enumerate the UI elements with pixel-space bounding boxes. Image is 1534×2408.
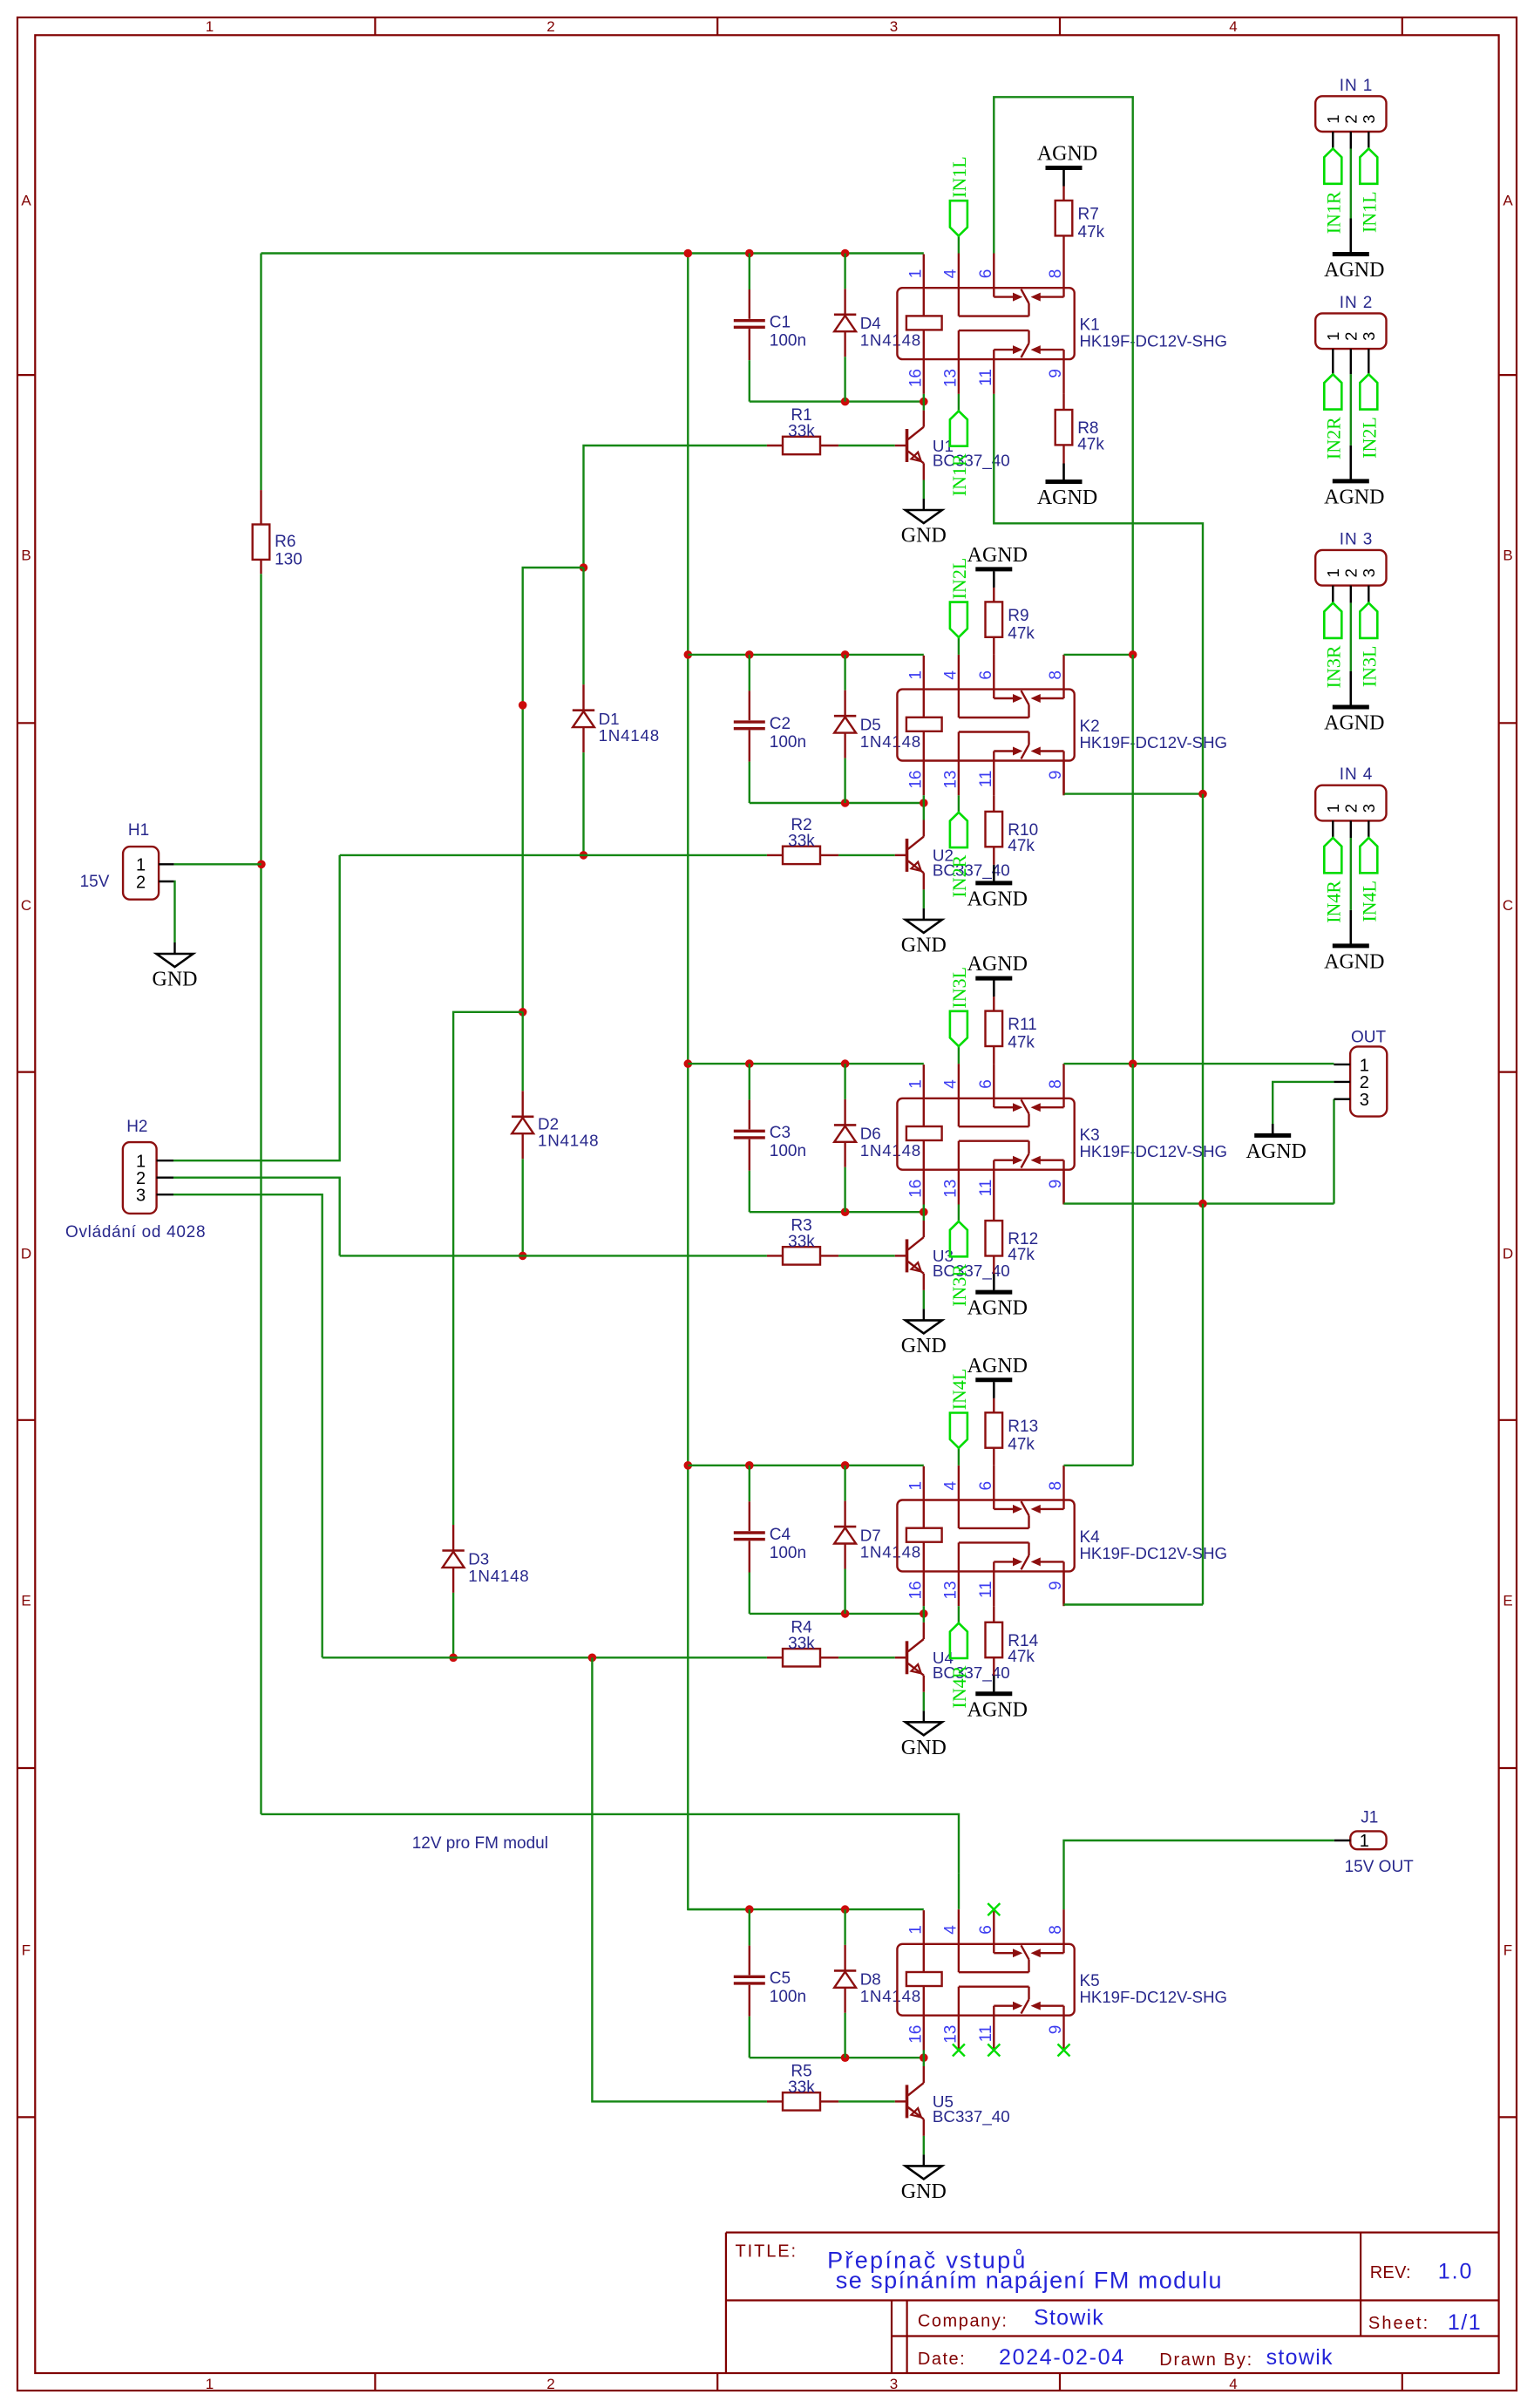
wire pin16 to rail K1: [923, 394, 925, 402]
svg-text:J1: J1: [1361, 1809, 1378, 1827]
svg-text:IN1L: IN1L: [1358, 191, 1380, 233]
wire K5 pin8 to J1: [1064, 1840, 1334, 1909]
AGND below R8: [1046, 480, 1083, 484]
svg-text:2: 2: [1342, 332, 1361, 341]
wire bus2 continues: [1202, 794, 1204, 1204]
junction K4 rail bus: [684, 1461, 693, 1470]
svg-text:2: 2: [136, 873, 146, 892]
svg-text:1N4148: 1N4148: [860, 1543, 921, 1561]
svg-text:47k: 47k: [1008, 624, 1035, 643]
svg-text:GND: GND: [901, 525, 947, 548]
border row ticks left: [17, 374, 35, 376]
svg-text:47k: 47k: [1008, 1435, 1035, 1453]
wire K1 base line left segment: [584, 446, 767, 568]
wire pin16 to rail K2: [923, 795, 925, 803]
wire R4 left lead red: [767, 1656, 783, 1658]
wire pin16 to rail K5: [923, 2051, 925, 2058]
wire pin16 to rail K3: [923, 1205, 925, 1213]
wire IN4 pin2 to AGND: [1350, 820, 1352, 838]
diode D2: [522, 1012, 524, 1092]
relay K3 switch 2: [958, 1141, 960, 1170]
svg-text:AGND: AGND: [1324, 950, 1384, 973]
svg-text:C3: C3: [770, 1124, 791, 1142]
svg-text:8: 8: [1047, 1925, 1065, 1935]
svg-text:H1: H1: [128, 821, 149, 840]
svg-text:IN3R: IN3R: [948, 1264, 970, 1307]
wire 15V line to K5 pin 4: [261, 1814, 960, 1874]
svg-text:1N4148: 1N4148: [538, 1132, 599, 1150]
svg-text:4: 4: [1229, 18, 1237, 35]
wire K4 base line: [322, 1656, 767, 1658]
svg-text:IN 1: IN 1: [1340, 77, 1373, 95]
svg-text:D4: D4: [860, 314, 881, 332]
transistor U5: [895, 2100, 907, 2102]
svg-text:8: 8: [1047, 1079, 1065, 1089]
svg-text:IN3L: IN3L: [1358, 646, 1380, 688]
svg-text:1: 1: [906, 1925, 925, 1935]
net label IN2R below K2 pin 13: [958, 795, 960, 813]
wire H2 pin3 to K4 base: [173, 1194, 322, 1657]
svg-text:D2: D2: [538, 1115, 559, 1133]
relay K5 coil pins 1/16: [923, 1910, 925, 1972]
net label IN3L above K3 pin 4: [958, 1046, 960, 1064]
wire pin16 to rail K4: [923, 1606, 925, 1614]
wire K5 pin4 from 15V line: [958, 1874, 960, 1909]
ground GND U1: [906, 510, 942, 523]
svg-text:9: 9: [1047, 771, 1065, 780]
junction C1 rail: [745, 249, 754, 258]
wire K2 pin8 to bus: [1064, 654, 1133, 656]
svg-text:3: 3: [1360, 1091, 1369, 1110]
wire collector to bottom rail K5: [923, 2058, 925, 2066]
svg-text:8: 8: [1047, 670, 1065, 680]
net label IN2L: [1360, 374, 1377, 409]
ground GND U3: [906, 1320, 942, 1333]
relay K1 body: [897, 288, 1074, 359]
svg-text:9: 9: [1047, 369, 1065, 378]
svg-text:IN 3: IN 3: [1340, 530, 1373, 548]
svg-text:3: 3: [1360, 568, 1378, 577]
relay K5 coil: [906, 1972, 942, 1986]
wire K2 pin9 to bus2: [1064, 792, 1204, 794]
wire branch to D3 column: [453, 1012, 523, 1355]
svg-text:33k: 33k: [788, 832, 815, 850]
svg-text:1: 1: [1324, 568, 1342, 577]
junction D1 top: [580, 563, 588, 572]
svg-text:D1: D1: [599, 710, 620, 728]
svg-text:4: 4: [941, 1079, 960, 1089]
svg-text:B: B: [21, 548, 31, 564]
relay K1 switch 1: [958, 288, 960, 316]
relay K5 switch 2: [958, 1987, 960, 2016]
svg-text:BC337_40: BC337_40: [933, 2107, 1010, 2126]
capacitor C1: [749, 254, 750, 290]
svg-text:100n: 100n: [770, 332, 806, 350]
svg-text:100n: 100n: [770, 1142, 806, 1160]
svg-text:D3: D3: [468, 1550, 489, 1568]
svg-text:D8: D8: [860, 1970, 881, 1989]
svg-text:6: 6: [977, 269, 995, 279]
svg-text:4: 4: [1229, 2376, 1237, 2392]
resistor R4: [783, 1649, 820, 1666]
wire R5 left lead red: [767, 2100, 783, 2102]
svg-text:8: 8: [1047, 269, 1065, 279]
junction H1 pin1: [257, 860, 266, 869]
svg-text:IN4L: IN4L: [1358, 881, 1380, 922]
wire R1 right lead: [820, 445, 838, 446]
capacitor C5: [749, 1909, 750, 1946]
wire H1 pin1: [159, 863, 174, 865]
wire R4 right lead: [820, 1656, 838, 1658]
resistor R7 with AGND above: [1062, 235, 1064, 253]
svg-text:1: 1: [906, 269, 925, 279]
svg-text:IN 4: IN 4: [1340, 765, 1373, 784]
AGND below R10: [975, 881, 1012, 885]
relay K5 body: [897, 1944, 1074, 2016]
wire K1 pin6 loop to bus: [994, 97, 1132, 655]
svg-text:13: 13: [941, 1180, 960, 1198]
svg-text:IN2R: IN2R: [1322, 417, 1344, 459]
net label IN4L: [1360, 838, 1377, 873]
svg-text:2: 2: [546, 2376, 554, 2392]
svg-text:AGND: AGND: [967, 1698, 1028, 1721]
svg-text:AGND: AGND: [967, 953, 1028, 976]
relay K2 coil pins 1/16: [923, 656, 925, 718]
border column ticks top: [374, 17, 376, 35]
diode D5: [844, 655, 845, 690]
wire K4 base to K5 base riser: [592, 1657, 767, 2101]
junction D7 bottom rail: [841, 1609, 850, 1618]
wire H2 pin2 stub: [157, 1176, 173, 1178]
wire K1 bottom rail: [750, 400, 924, 402]
svg-text:1N4148: 1N4148: [860, 330, 921, 349]
junction K5 riser on K4 base: [588, 1654, 597, 1663]
wire emitter to GND U5: [923, 2136, 925, 2155]
svg-text:BC337_40: BC337_40: [933, 860, 1010, 880]
svg-text:C: C: [1503, 897, 1513, 914]
relay K3 switch 1: [958, 1099, 960, 1126]
svg-text:47k: 47k: [1008, 1648, 1035, 1666]
svg-text:6: 6: [977, 1079, 995, 1089]
junction K3 pin8 bus: [1129, 1059, 1137, 1068]
relay K1 pin stubs: [958, 254, 960, 289]
capacitor C2: [749, 655, 750, 691]
wire IN2 pin3 stub: [1368, 349, 1369, 374]
svg-text:IN4R: IN4R: [1322, 881, 1344, 923]
svg-text:GND: GND: [901, 2180, 947, 2203]
svg-text:100n: 100n: [770, 1544, 806, 1562]
svg-text:4: 4: [941, 670, 960, 680]
wire K2 rail: [688, 654, 924, 656]
svg-text:GND: GND: [901, 934, 947, 956]
svg-text:D: D: [1503, 1246, 1513, 1262]
wire K3 pin9 line to OUT pin3 riser: [1062, 1170, 1064, 1204]
svg-text:IN3R: IN3R: [1322, 645, 1344, 688]
net label IN3R below K3 pin 13: [958, 1205, 960, 1222]
resistor R1: [783, 437, 820, 454]
svg-text:11: 11: [977, 1180, 995, 1197]
wire R6 bottom to H1 junction and 15V line: [260, 574, 261, 1814]
wire IN1 pin1 stub: [1332, 132, 1334, 149]
svg-text:1N4148: 1N4148: [860, 1987, 921, 2005]
svg-text:47k: 47k: [1008, 837, 1035, 855]
junction D1 anode on K2 base: [580, 851, 588, 860]
svg-text:IN1R: IN1R: [1322, 191, 1344, 234]
wire collector to bottom rail K2: [923, 803, 925, 820]
junction bus K1 rail: [684, 249, 693, 258]
relay K2 body: [897, 690, 1074, 761]
wire K4 pin9 to bus2 corner: [1062, 1571, 1064, 1604]
svg-text:3: 3: [1360, 115, 1378, 124]
svg-text:1N4148: 1N4148: [599, 726, 660, 745]
relay K4 body: [897, 1500, 1074, 1572]
relay K3 pin stubs: [958, 1064, 960, 1099]
svg-text:1: 1: [1360, 1832, 1369, 1851]
svg-text:D7: D7: [860, 1526, 881, 1544]
transistor U2: [895, 854, 907, 856]
svg-text:13: 13: [941, 2025, 960, 2044]
transistor U3: [895, 1255, 907, 1256]
junction collector K2: [920, 799, 928, 807]
resistor R3: [783, 1247, 820, 1264]
ground GND H1: [157, 954, 193, 967]
svg-text:AGND: AGND: [1037, 486, 1097, 509]
junction C4 rail: [745, 1461, 754, 1470]
svg-text:9: 9: [1047, 1180, 1065, 1189]
junction K3 rail bus: [684, 1059, 693, 1068]
resistor R5: [783, 2092, 820, 2110]
net label IN4R below K4 pin 13: [958, 1606, 960, 1623]
wire emitter to GND U1: [923, 480, 925, 500]
net label IN4R: [1324, 838, 1341, 873]
AGND above R7: [1046, 166, 1083, 170]
svg-text:3: 3: [1360, 332, 1378, 341]
svg-text:IN1R: IN1R: [948, 453, 970, 496]
wire R5 right lead: [820, 2100, 838, 2102]
svg-text:12V pro FM modul: 12V pro FM modul: [412, 1834, 548, 1853]
relay K4 coil: [906, 1528, 942, 1542]
junction D5 rail: [841, 650, 850, 659]
relay K1 switch 2: [958, 330, 960, 359]
junction K2 pin8 bus: [1129, 650, 1137, 659]
ground GND U2: [906, 920, 942, 933]
wire R2 right lead: [820, 854, 838, 856]
AGND below IN3: [1333, 705, 1369, 710]
svg-text:AGND: AGND: [1037, 143, 1097, 166]
wire collector to bottom rail K3: [923, 1212, 925, 1221]
svg-text:47k: 47k: [1008, 1034, 1035, 1052]
wire H1 pin2 to GND: [159, 881, 174, 882]
svg-text:IN2R: IN2R: [948, 854, 970, 897]
svg-text:2: 2: [546, 18, 554, 35]
junction lone on D2 column: [519, 701, 527, 710]
resistor R14 with AGND below: [993, 1606, 994, 1622]
wire H2 pin3 stub: [157, 1194, 173, 1195]
svg-text:3: 3: [890, 18, 898, 35]
svg-text:GND: GND: [153, 969, 198, 991]
resistor R6: [260, 490, 261, 524]
svg-text:1/1: 1/1: [1448, 2310, 1482, 2335]
svg-text:33k: 33k: [788, 423, 815, 441]
svg-text:11: 11: [977, 2025, 995, 2043]
wire K4 rail: [688, 1465, 924, 1466]
relay K3 body: [897, 1099, 1074, 1170]
svg-text:D5: D5: [860, 715, 881, 733]
svg-text:se spínáním napájení FM modulu: se spínáním napájení FM modulu: [836, 2268, 1223, 2294]
resistor R9 with AGND above: [993, 637, 994, 655]
wire dot to D2 column: [523, 568, 584, 1012]
svg-text:130: 130: [275, 551, 302, 569]
wire OUT pin2 stub: [1334, 1081, 1350, 1083]
diode D8: [844, 1909, 845, 1945]
transistor U1: [895, 445, 907, 446]
relay K1 coil: [906, 316, 942, 330]
junction collector K4: [920, 1609, 928, 1618]
border row ticks right: [1499, 374, 1517, 376]
wire K1 pin11 to bus2: [994, 394, 1203, 794]
svg-text:BC337_40: BC337_40: [933, 452, 1010, 471]
svg-text:R9: R9: [1008, 607, 1028, 625]
svg-text:47k: 47k: [1008, 1246, 1035, 1264]
svg-text:2: 2: [1342, 804, 1361, 813]
wire K4 pin8 to bus corner: [1064, 1465, 1133, 1466]
svg-text:A: A: [21, 193, 31, 209]
svg-text:OUT: OUT: [1351, 1029, 1387, 1047]
junction collector K1: [920, 398, 928, 406]
svg-text:HK19F-DC12V-SHG: HK19F-DC12V-SHG: [1080, 1142, 1227, 1160]
capacitor C4: [749, 1466, 750, 1502]
svg-text:AGND: AGND: [1246, 1140, 1307, 1163]
svg-text:AGND: AGND: [967, 888, 1028, 910]
wire K3 pin8 to OUT pin1: [1064, 1063, 1334, 1065]
svg-text:1.0: 1.0: [1438, 2260, 1474, 2284]
no-connect X K5 pin13: [953, 2044, 965, 2057]
svg-text:Company:: Company:: [918, 2312, 1008, 2331]
svg-text:33k: 33k: [788, 2078, 815, 2097]
svg-text:11: 11: [977, 1581, 995, 1598]
svg-text:A: A: [1503, 193, 1513, 209]
junction K2 pin9 bus2: [1198, 790, 1207, 799]
junction D6 rail: [841, 1059, 850, 1068]
svg-text:1N4148: 1N4148: [860, 1141, 921, 1160]
svg-text:1: 1: [206, 2376, 214, 2392]
svg-text:1: 1: [206, 18, 214, 35]
wire collector to bottom rail K4: [923, 1614, 925, 1622]
wire K5 rail: [688, 1908, 924, 1910]
net label IN3L: [1360, 603, 1377, 638]
svg-text:100n: 100n: [770, 1988, 806, 2006]
capacitor C3: [749, 1064, 750, 1100]
svg-text:3: 3: [136, 1187, 146, 1206]
wire K2 base line: [340, 854, 767, 856]
wire IN4 pin3 stub: [1368, 820, 1369, 838]
wire K3 rail: [688, 1063, 924, 1065]
junction K2 rail bus: [684, 650, 693, 659]
junction D8 rail: [841, 1905, 850, 1914]
junction D6 bottom rail: [841, 1207, 850, 1216]
svg-text:6: 6: [977, 670, 995, 680]
svg-text:AGND: AGND: [967, 544, 1028, 567]
border column ticks bottom: [374, 2373, 376, 2391]
wire IN4 pin1 stub: [1332, 820, 1334, 838]
wire IN3 pin2 to AGND: [1350, 586, 1352, 603]
svg-text:C1: C1: [770, 314, 791, 332]
svg-text:C: C: [21, 897, 31, 914]
svg-text:GND: GND: [901, 1737, 947, 1759]
junction C5 rail: [745, 1905, 754, 1914]
svg-text:16: 16: [906, 1180, 925, 1198]
svg-text:11: 11: [977, 771, 995, 788]
AGND below R12: [975, 1290, 1012, 1295]
resistor R13 with AGND above: [993, 1448, 994, 1466]
ground GND U5: [906, 2166, 942, 2179]
diode D6: [844, 1064, 845, 1099]
relay K5 switch 1: [958, 1944, 960, 1972]
wire collector to bottom rail K1: [923, 402, 925, 411]
wire OUT pin3 stub: [1334, 1098, 1351, 1099]
wire IN1 pin2 to AGND: [1350, 132, 1352, 149]
svg-text:1: 1: [1324, 804, 1342, 813]
svg-text:IN1L: IN1L: [948, 156, 970, 198]
wire R3 right lead: [820, 1255, 838, 1256]
junction C3 rail: [745, 1059, 754, 1068]
resistor R11 with AGND above: [993, 1046, 994, 1064]
svg-text:13: 13: [941, 369, 960, 387]
svg-text:6: 6: [977, 1481, 995, 1491]
net label IN4L above K4 pin 4: [958, 1448, 960, 1466]
title block frame: [726, 2232, 1499, 2234]
svg-text:Stowik: Stowik: [1034, 2306, 1104, 2330]
svg-text:R13: R13: [1008, 1418, 1038, 1436]
wire OUT pin1 stub: [1334, 1064, 1350, 1065]
junction D3 anode on K4 base: [449, 1654, 458, 1663]
svg-text:F: F: [1503, 1942, 1512, 1959]
svg-text:C2: C2: [770, 715, 791, 733]
svg-text:1: 1: [906, 1079, 925, 1089]
wire J1 pin stub: [1334, 1840, 1351, 1841]
relay K1 coil pins 1/16: [923, 255, 925, 316]
junction collector K5: [920, 2053, 928, 2062]
diode D4: [844, 254, 845, 289]
svg-text:E: E: [1503, 1593, 1512, 1609]
svg-text:B: B: [1503, 548, 1512, 564]
no-connect X K5 pin11: [988, 2044, 1000, 2057]
svg-text:D: D: [21, 1246, 31, 1262]
transistor U4: [895, 1656, 907, 1658]
net label IN3R: [1324, 603, 1341, 638]
svg-text:1: 1: [906, 670, 925, 680]
svg-text:9: 9: [1047, 2025, 1065, 2035]
svg-text:100n: 100n: [770, 733, 806, 752]
svg-text:16: 16: [906, 369, 925, 387]
svg-text:47k: 47k: [1078, 223, 1105, 241]
wire emitter to GND U4: [923, 1692, 925, 1711]
svg-text:D6: D6: [860, 1125, 881, 1143]
svg-text:E: E: [21, 1593, 31, 1609]
svg-text:3: 3: [890, 2376, 898, 2392]
wire R6 top: [260, 254, 261, 491]
svg-text:15V: 15V: [80, 873, 110, 891]
wire emitter to GND U3: [923, 1290, 925, 1309]
AGND below IN1: [1333, 252, 1369, 256]
junction collector K3: [920, 1207, 928, 1216]
junction K3 pin9 bus2: [1198, 1200, 1207, 1208]
resistor R12 with AGND below: [993, 1205, 994, 1221]
AGND below R14: [975, 1691, 1012, 1696]
wire K4 bottom rail: [750, 1613, 924, 1615]
junction D7 rail: [841, 1461, 850, 1470]
junction D2 branch: [519, 1008, 527, 1017]
